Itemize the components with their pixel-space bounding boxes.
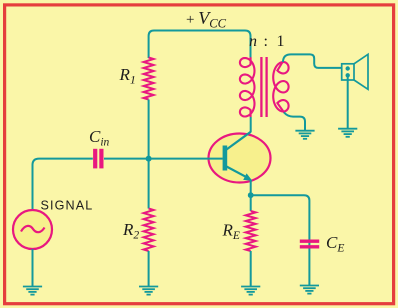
speaker horn <box>354 54 368 89</box>
capacitor Cin plates <box>93 149 97 169</box>
transistor Q1 body <box>209 134 271 183</box>
wire: emitter down to RE <box>250 180 252 212</box>
node junction base/bias <box>146 156 152 162</box>
transformer secondary coil <box>273 61 288 113</box>
wire: R2 bottom to ground <box>148 251 150 287</box>
ground under CE <box>300 286 319 294</box>
svg-text:SIGNAL: SIGNAL <box>41 199 94 213</box>
ground under RE <box>241 287 260 295</box>
emitter arrowhead <box>243 173 252 180</box>
ground under secondary <box>295 131 314 139</box>
transistor emitter lead <box>227 167 248 178</box>
transistor base bar <box>223 146 228 171</box>
transistor collector lead <box>227 132 251 150</box>
ground under signal <box>23 287 42 295</box>
wire <box>104 158 223 160</box>
resistor RE <box>246 211 256 251</box>
resistor R2 <box>144 209 154 252</box>
wire: top VCC rail from R1 top corner to transformer primary <box>149 31 251 59</box>
transformer primary coil <box>240 57 255 117</box>
wire: signal to base (with Cin gap) <box>33 159 93 211</box>
speaker terminal dots <box>346 66 350 70</box>
capacitor CE plates <box>300 239 319 242</box>
ground under speaker <box>338 129 357 137</box>
wire: secondary bottom to ground <box>284 112 305 130</box>
ground under R2 <box>139 287 158 295</box>
wire: emitter junction to CE <box>251 195 310 285</box>
node emitter junction <box>248 192 254 198</box>
wire: signal to ground <box>32 249 34 287</box>
wire: collector up to transformer primary <box>250 117 252 132</box>
resistor R1 <box>144 58 154 100</box>
signal source <box>13 210 52 249</box>
wire: RE to ground <box>250 251 252 287</box>
speaker body <box>342 64 354 80</box>
wire: secondary top to speaker <box>283 54 342 68</box>
wire: R1 bottom to R2 top (through base junction) <box>148 100 150 209</box>
sine wave in source <box>21 226 45 232</box>
transformer core <box>260 57 262 117</box>
wire: speaker to ground <box>347 75 349 128</box>
svg-text:n:1: n:1 <box>249 33 285 50</box>
